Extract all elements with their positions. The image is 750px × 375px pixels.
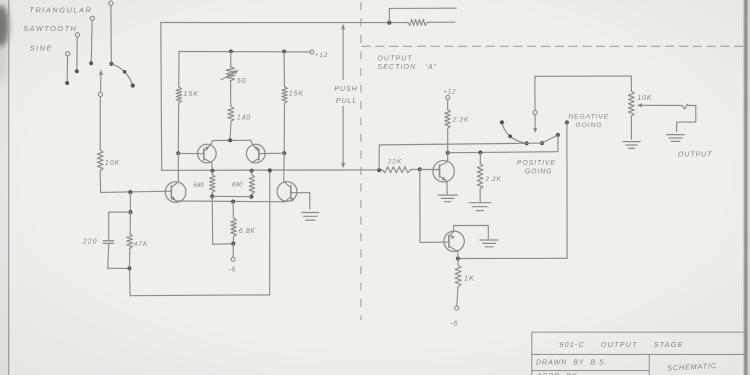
resistor 6.8K — [232, 202, 234, 219]
wire across to 6.8K bottom — [213, 243, 234, 246]
junction RC bottom — [127, 266, 131, 270]
resistor 140 — [230, 81, 232, 107]
wire to -6 terminal — [232, 244, 234, 258]
switch S2 pole from output network — [534, 76, 536, 110]
jack tip contact — [682, 104, 696, 109]
wire Q5 emitter to ground — [446, 181, 448, 194]
push-pull span arrow — [341, 24, 345, 169]
junction 680s / emitter rail dots — [210, 169, 214, 173]
title block border — [532, 332, 744, 375]
switch contact TRIANGULAR (terminal) — [90, 16, 94, 20]
junction 50-pot top — [229, 49, 233, 53]
pot wiper arrow to jack — [637, 103, 642, 107]
resistor 10K (series input) — [97, 150, 103, 171]
junction Q5/Q6 base split — [418, 167, 422, 171]
junction positive contact — [525, 141, 529, 145]
wire pot bottom to ground — [630, 116, 632, 139]
wire driver rail (left part) — [162, 169, 382, 171]
switch contact SAWTOOTH (terminal) — [75, 33, 79, 37]
junction node A — [128, 190, 132, 194]
switch contact SINE (terminal) — [66, 52, 70, 56]
wire collector rail to switch — [448, 152, 558, 153]
wire Q5 base lead — [420, 168, 440, 170]
wire RC bottom to feedback run — [129, 269, 132, 296]
wire stub line after resistor — [427, 21, 455, 23]
wire positive-going link from driver rail — [378, 145, 380, 170]
junction 6.8K top — [231, 200, 235, 204]
junction Q5 collector node — [446, 151, 450, 155]
junction 2.2K-2 top — [478, 150, 482, 154]
resistor 2.2K (second) — [479, 153, 481, 164]
wire 15K right to Q2b collector — [283, 153, 286, 181]
wire pole to resistor 10K — [99, 97, 101, 150]
wire RC top rail — [109, 211, 131, 213]
transistor Q6 (emitter follower) — [444, 231, 464, 251]
wire negative-going across to Q6 emitter — [458, 257, 567, 259]
junction collector tie — [228, 138, 232, 142]
trimmer 50 adjustment arrow — [221, 72, 236, 80]
wire between contacts — [527, 142, 543, 144]
wire Q1b base lead — [259, 152, 284, 155]
wire 680-left bottom down to -6 node — [211, 196, 213, 244]
wire contact rise — [542, 135, 558, 143]
resistor 2.2K (collector load) — [447, 128, 449, 152]
wire 15K left to Q2 collector — [177, 153, 179, 181]
ground Q5 emitter — [438, 194, 457, 196]
junction stub branch — [387, 21, 391, 25]
wire Q6 collector to ground — [454, 225, 489, 238]
dark smudge top-left page edge — [0, 5, 9, 82]
ground Q2b base — [302, 212, 319, 214]
junction Q1b base tap — [282, 151, 286, 155]
wire negative-going down — [566, 123, 568, 259]
junction 680 left bottom — [210, 194, 214, 198]
left border line of sheet — [8, 0, 10, 375]
junction negative-going contact — [565, 120, 569, 124]
wire feedback rising to emitter rail — [269, 170, 271, 295]
wire node A down to RC network — [129, 192, 131, 212]
resistor (unlabeled) in stub line — [408, 19, 427, 25]
wire stub branch upper — [389, 8, 456, 22]
ground Q6 collector — [480, 239, 498, 241]
wire Q6 base from driver rail — [419, 169, 421, 242]
wire Q6 emitter — [457, 251, 459, 258]
wire feedback bottom run — [130, 294, 270, 297]
junction Q1 base tap — [176, 151, 180, 155]
resistor 15K (left) — [178, 52, 180, 88]
wire Q2b base to ground — [291, 192, 310, 194]
wire switch to 10K pot — [535, 75, 631, 77]
ground 2.2K second — [469, 202, 491, 204]
junction 6.8K bottom — [231, 242, 235, 246]
wire top feedback: vertical from stub line down to driver rail — [160, 23, 163, 171]
wire contact down to collector rail — [557, 135, 559, 152]
resistor 680 (right) — [251, 171, 253, 175]
dashed section divider horizontal — [362, 45, 745, 47]
wire driver rail (right part) to Q5 base — [411, 168, 440, 170]
junction contact corner — [556, 133, 560, 137]
terminal +12 supply — [310, 50, 314, 54]
wire Q1 base lead — [178, 152, 204, 154]
resistor 15K (right) — [283, 52, 285, 87]
wire collector tie bar — [213, 139, 251, 141]
transistor Q2 (output left) — [165, 182, 186, 203]
resistor 22K (series to section A) — [382, 167, 411, 173]
jack sleeve path to ground — [677, 106, 696, 132]
left page-edge shading — [0, 0, 9, 375]
terminal -6 supply (left) — [231, 257, 235, 261]
wire RC bottom rail — [108, 267, 130, 269]
transistor Q1b (driver right) — [246, 144, 265, 163]
wire switch common input from top edge — [109, 1, 113, 5]
right page-edge dark band — [743, 0, 748, 375]
junction positive-going tap — [377, 168, 381, 172]
switch S1 wiper arc — [111, 64, 132, 86]
switch S2 wiper arc — [502, 122, 527, 143]
transistor Q1 (driver left) — [198, 144, 217, 163]
ground pot bottom — [623, 141, 640, 143]
wire node A to Q2 base — [101, 191, 172, 192]
terminal -6 (section A) — [455, 306, 459, 310]
capacitor 220 — [108, 212, 110, 240]
wire tie between 680 bottoms — [212, 195, 251, 197]
wire tie to Q1 collector — [211, 141, 213, 145]
dashed section divider vertical — [360, 2, 362, 320]
wire 140 to driver collectors — [229, 121, 232, 140]
wire 10K to node A — [99, 171, 101, 193]
switch S1 pole arrow — [99, 69, 103, 75]
junction right 15K top — [282, 50, 286, 54]
junction 680 right bottom — [249, 195, 253, 199]
resistor 680 (left) — [211, 163, 214, 169]
wire +12 supply rail — [179, 51, 311, 53]
resistor 47K — [129, 212, 131, 234]
terminal +12 (section A) — [446, 95, 450, 99]
trimmer resistor 50 — [230, 51, 232, 66]
resistor 1K — [457, 259, 459, 266]
wire stub line to other section (lower) — [161, 22, 408, 24]
transistor Q2b (output right) — [277, 182, 297, 202]
junction Q6 emitter node — [456, 256, 460, 260]
wire tie to Q1b collector — [251, 140, 253, 144]
wire output emitter rail — [176, 200, 285, 203]
potentiometer 10K — [628, 91, 634, 116]
transistor Q5 (section A amplifier) — [433, 161, 454, 182]
junction RC top — [128, 210, 132, 214]
ground jack sleeve — [667, 134, 685, 136]
wire Q5 collector — [447, 153, 449, 162]
junction contact mid — [540, 141, 544, 145]
